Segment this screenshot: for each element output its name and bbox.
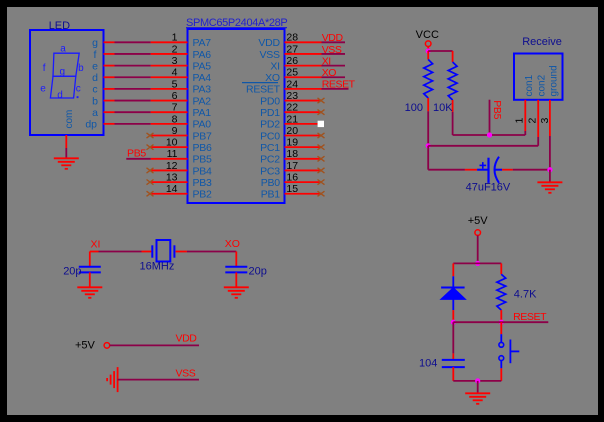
IC left pin numbers [166,32,178,195]
svg-text:con2: con2 [536,74,547,96]
wire +5V down [477,235,479,263]
junction node VCC [426,48,431,53]
svg-text:PD0: PD0 [260,95,280,107]
svg-text:VDD: VDD [322,32,344,44]
wire down to cap row [427,146,429,170]
svg-text:20: 20 [286,125,298,137]
svg-text:g: g [92,37,98,49]
IC right pin numbers [286,32,298,195]
net labels VDD VSS XI XO RESET on pins 28-24 [322,32,356,91]
svg-text:24: 24 [286,78,298,90]
wire down to cap 104 [452,322,454,353]
wire RESET row [453,321,548,323]
svg-text:XO: XO [225,238,240,250]
svg-text:3: 3 [172,55,178,67]
svg-text:2: 2 [527,118,539,124]
svg-text:21: 21 [286,113,298,125]
svg-text:6: 6 [172,90,178,102]
svg-text:4: 4 [172,67,178,79]
wire XI row [90,251,99,253]
svg-text:PB0: PB0 [261,177,281,189]
svg-text:1: 1 [172,32,178,44]
connector J1 Receive box [514,54,563,100]
svg-text:VDD: VDD [258,37,280,49]
svg-text:PC2: PC2 [260,154,280,166]
svg-text:10: 10 [166,137,178,149]
svg-text:11: 11 [167,148,178,160]
capacitor C? 20p left [63,265,101,277]
svg-text:con1: con1 [524,74,535,96]
svg-text:PA4: PA4 [193,72,212,84]
svg-text:e: e [40,84,46,95]
svg-text:PB3: PB3 [193,177,213,189]
svg-text:VDD: VDD [176,333,198,345]
svg-text:b: b [92,95,98,107]
LED pin stubs [104,42,115,124]
LED segment pin names [85,37,98,131]
svg-text:f: f [94,49,97,61]
svg-text:8: 8 [172,113,178,125]
svg-text:14: 14 [166,183,178,195]
svg-text:f: f [43,63,46,74]
svg-text:PA0: PA0 [193,119,212,131]
power ground symbol (VSS) [107,367,118,392]
junction node bottom ground [475,378,480,383]
svg-text:12: 12 [166,160,178,172]
svg-text:PD2: PD2 [260,119,280,131]
svg-text:a: a [60,44,66,55]
wire VDD [110,344,199,346]
svg-text:25: 25 [286,67,298,79]
svg-text:PB5: PB5 [127,148,146,160]
ground under LED [54,158,79,169]
svg-text:VSS: VSS [176,367,196,379]
svg-text:PB6: PB6 [193,142,213,154]
connector pin names con1 con2 ground (rotated) [524,65,559,96]
net label PB5 left + wire [126,158,150,160]
wire XO corner down [235,252,237,267]
svg-text:100: 100 [405,102,423,114]
svg-text:16MHz: 16MHz [140,261,175,273]
svg-text:RESET: RESET [322,79,356,91]
svg-text:VSS: VSS [260,49,281,61]
capacitor C? 104 [419,353,465,381]
wire VSS [118,379,199,381]
wire cap to ground junction [513,169,550,171]
svg-text:+5V: +5V [468,215,489,227]
crystal Y1 16MHz [140,240,187,273]
svg-text:16: 16 [286,172,298,184]
capacitor C? 20p right [225,265,267,277]
connector pin numbers (rotated) [514,118,552,124]
svg-text:dp: dp [85,119,97,131]
IC left pins 1-14 [151,42,188,193]
svg-text:c: c [92,84,97,96]
svg-text:com: com [64,110,75,129]
ground stem top right [549,170,551,183]
connector pin 3 [549,100,551,136]
svg-text:5: 5 [172,78,178,90]
svg-text:2: 2 [172,43,178,55]
svg-text:27: 27 [286,43,298,55]
wire bottom row [453,380,501,382]
7-segment glyph [40,44,84,101]
svg-text:RESET: RESET [513,311,547,323]
junction node ground net [547,167,552,172]
svg-text:XI: XI [91,239,101,251]
svg-text:PA3: PA3 [193,84,212,96]
wire R10K down to con1 row [452,112,454,135]
IC right pin names [246,37,281,200]
svg-text:+5V: +5V [75,340,96,352]
wire row to con2 [428,145,538,147]
svg-text:18: 18 [286,148,298,160]
ground stem bottom right [477,381,479,393]
svg-text:RESET: RESET [246,84,281,96]
svg-text:47uF16V: 47uF16V [466,182,511,194]
IC U1 box [188,29,285,203]
svg-text:20p: 20p [63,265,81,277]
XO pin name underline [242,82,278,84]
svg-text:PA5: PA5 [193,60,212,72]
svg-text:g: g [60,67,66,78]
free wire end marker pin 21 [318,121,324,127]
ground left 20p [77,287,102,298]
svg-text:9: 9 [172,125,178,137]
svg-text:e: e [92,60,98,72]
svg-text:4.7K: 4.7K [514,289,537,301]
svg-text:PC1: PC1 [260,142,280,154]
connector pin 2 [537,100,539,137]
svg-text:XI: XI [270,60,279,72]
svg-text:VCC: VCC [416,29,439,41]
wire VCC to R 10K [428,50,452,52]
svg-text:26: 26 [286,55,298,67]
wire XI corner down [89,252,91,267]
junction node R4.7K/RESET [499,320,504,325]
svg-text:104: 104 [419,358,437,370]
svg-text:20p: 20p [249,265,267,277]
svg-text:d: d [57,90,63,101]
capacitor C? 47uF16V [428,157,513,194]
resistor R? 4.7K [497,263,537,322]
svg-text:PA7: PA7 [193,37,212,49]
svg-text:PB7: PB7 [193,130,213,142]
switch S1 pushbutton [499,322,519,381]
svg-text:13: 13 [166,172,178,184]
svg-text:XO: XO [322,67,337,79]
svg-text:7: 7 [172,102,178,114]
ground receive [537,182,562,193]
wires LED to IC rows 1-8 [115,42,151,124]
svg-text:PD1: PD1 [260,107,280,119]
svg-text:PB5: PB5 [193,154,213,166]
svg-text:17: 17 [286,160,298,172]
svg-text:b: b [78,63,84,74]
wire top rail [453,262,501,264]
svg-text:VSS: VSS [322,44,342,56]
LED ground stem wire [65,135,67,148]
connector pin 1 [524,100,526,131]
svg-text:PA1: PA1 [193,107,212,119]
net label PB5 (vertical) + wire [489,100,491,135]
svg-text:28: 28 [286,32,298,44]
svg-text:3: 3 [539,118,551,124]
svg-text:a: a [92,107,98,119]
LED display U2 box [30,30,104,135]
IC left pin names [193,37,213,200]
svg-text:PB1: PB1 [261,189,281,201]
svg-text:10K: 10K [433,102,453,114]
junction node R100 column [426,143,431,148]
no-connect X marks right side [318,98,325,196]
junction node PB5/con1 [487,132,492,137]
svg-text:ground: ground [548,65,559,96]
svg-text:1: 1 [514,118,526,124]
svg-text:XI: XI [322,55,331,67]
svg-text:PB5: PB5 [491,100,503,119]
ground right 20p [224,287,249,298]
svg-text:d: d [92,72,98,84]
resistor R? 10K [433,51,457,114]
svg-text:PC0: PC0 [260,130,280,142]
svg-text:PA6: PA6 [193,49,212,61]
no-connect X marks left side [147,133,154,196]
resistor R? 100 [405,51,433,114]
svg-text:22: 22 [286,102,298,114]
junction node diode/RESET [451,320,456,325]
svg-text:15: 15 [286,183,298,195]
wire R100 down [427,111,429,146]
svg-text:19: 19 [286,137,298,149]
svg-text:Receive: Receive [522,36,562,48]
svg-text:LED: LED [49,20,70,32]
svg-text:c: c [76,84,81,95]
junction node top rail [475,261,480,266]
svg-text:23: 23 [286,90,298,102]
IC title underline [186,27,287,29]
svg-text:PB2: PB2 [193,189,213,201]
wire crystal to XO corner [187,251,236,253]
ground reset circuit [465,393,490,404]
svg-text:PB4: PB4 [193,165,213,177]
svg-text:PA2: PA2 [193,95,212,107]
svg-text:PC3: PC3 [260,165,280,177]
diode D1 [441,263,466,322]
IC right pins 28-15 [285,42,322,193]
